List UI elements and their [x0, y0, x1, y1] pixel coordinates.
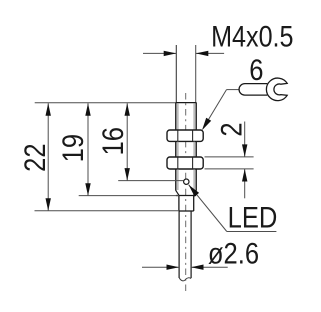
hex nut 2 (lower)	[167, 157, 203, 169]
dimension 22	[18, 103, 51, 211]
wrench icon	[266, 78, 287, 101]
threaded section below lower nut	[176, 169, 196, 190]
LED window hole	[184, 179, 189, 184]
svg-text:19: 19	[56, 134, 89, 162]
threaded section between nuts	[176, 142, 196, 158]
step to cable	[179, 210, 194, 212]
svg-text:16: 16	[96, 127, 129, 155]
label 6	[249, 53, 263, 86]
label LED	[228, 201, 278, 234]
neck section	[179, 195, 194, 211]
M4x0.5 dimension	[143, 20, 294, 56]
dimension ø2.6	[142, 237, 259, 270]
cable	[179, 211, 191, 281]
LED leader	[189, 185, 277, 232]
svg-text:6: 6	[249, 53, 263, 86]
svg-text:LED: LED	[228, 201, 278, 234]
wrench size 6 leader	[202, 90, 240, 131]
svg-text:ø2.6: ø2.6	[208, 237, 259, 270]
sensor tube (upper barrel, shown cut off)	[176, 45, 195, 103]
svg-text:M4x0.5: M4x0.5	[211, 20, 293, 53]
svg-text:2: 2	[215, 122, 248, 136]
top reference extension line	[35, 102, 176, 104]
dimension 16	[96, 103, 130, 180]
22 reference line	[35, 210, 180, 212]
wrench handle	[239, 84, 267, 96]
dimension 19	[56, 103, 90, 196]
dimension 2 (lower nut thickness)	[205, 122, 254, 199]
hex nut 1 (upper)	[167, 130, 203, 141]
svg-text:22: 22	[18, 143, 51, 171]
16 reference line to LED	[118, 180, 183, 182]
19 reference line	[79, 195, 179, 197]
centerline	[185, 93, 187, 291]
threaded section top (M4 thread)	[176, 103, 197, 130]
chamfer to neck	[176, 190, 196, 195]
